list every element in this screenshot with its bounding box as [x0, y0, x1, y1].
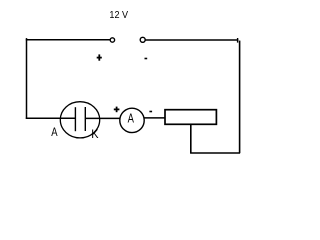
svg-text:A: A [128, 111, 135, 125]
svg-text:12 V: 12 V [109, 10, 128, 21]
svg-text:K: K [91, 127, 98, 141]
svg-text:A: A [51, 126, 57, 139]
